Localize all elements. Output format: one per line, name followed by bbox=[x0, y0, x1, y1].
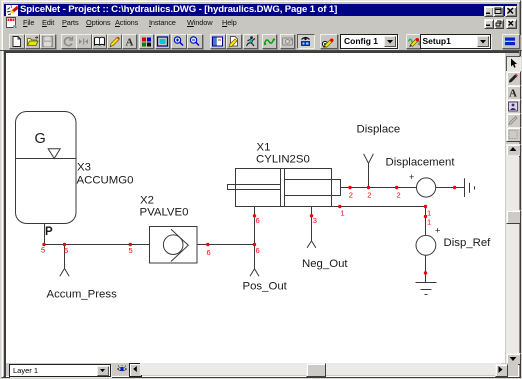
mdi restore bbox=[494, 19, 504, 29]
wire rod to source bbox=[341, 187, 417, 189]
svg-text:+: + bbox=[409, 172, 414, 182]
scroll down bbox=[506, 353, 521, 366]
wire source to ground bbox=[436, 187, 465, 189]
antenna Accum_Press bbox=[60, 245, 69, 277]
pencil yellow bbox=[107, 34, 123, 50]
zoom out bbox=[187, 34, 203, 50]
node dot 6 pin bbox=[253, 214, 256, 217]
valve X2 body bbox=[150, 227, 198, 264]
wire accumulator to valve bbox=[44, 244, 150, 246]
node dot 1 left bbox=[338, 205, 341, 208]
node dot 2 rod bbox=[348, 186, 351, 189]
scroll up bbox=[506, 144, 521, 157]
title bar bbox=[4, 4, 517, 16]
book bbox=[92, 34, 108, 50]
cylinder X1 body bbox=[228, 169, 341, 207]
svg-text:CYLIN2S0: CYLIN2S0 bbox=[256, 154, 310, 166]
setup pens bbox=[406, 34, 423, 50]
svg-text:+: + bbox=[435, 226, 440, 236]
eye icon bbox=[117, 365, 127, 373]
open bbox=[25, 34, 41, 50]
hthumb bbox=[306, 363, 326, 377]
line tool (disabled) bbox=[506, 113, 521, 129]
svg-text:2: 2 bbox=[367, 191, 371, 200]
svg-text:5: 5 bbox=[41, 246, 45, 255]
mdi close bbox=[506, 19, 517, 29]
palette bbox=[139, 34, 155, 50]
svg-text:PVALVE0: PVALVE0 bbox=[140, 207, 189, 219]
zoom in bbox=[171, 34, 187, 50]
svg-text:6: 6 bbox=[256, 246, 260, 255]
wire node1 horizontal bbox=[332, 206, 426, 208]
antenna Neg_Out bbox=[307, 241, 316, 248]
node dot 1 vert bbox=[424, 215, 427, 218]
ground right bbox=[465, 178, 475, 197]
node dot 5 valve bbox=[129, 243, 132, 246]
wire accumulator stub bbox=[44, 224, 46, 245]
svg-text:6: 6 bbox=[256, 216, 260, 225]
ground bottom bbox=[416, 283, 437, 295]
antenna Displace bbox=[364, 154, 374, 188]
maximize bbox=[493, 6, 504, 17]
svg-text:Pos_Out: Pos_Out bbox=[243, 281, 288, 293]
layer combo bbox=[9, 364, 111, 378]
svg-text:5: 5 bbox=[129, 246, 133, 255]
zoom tool (disabled) bbox=[506, 127, 521, 143]
right tool strip bbox=[505, 53, 519, 363]
svg-text:2: 2 bbox=[349, 191, 353, 200]
vthumb bbox=[506, 210, 521, 224]
wire valve to junction bbox=[197, 244, 255, 246]
menu bar bbox=[0, 17, 522, 29]
wire cylinder pin3 bbox=[311, 207, 313, 241]
pencil tool bbox=[506, 71, 521, 87]
A bbox=[122, 34, 138, 50]
node dot 5 stub bbox=[42, 243, 45, 246]
svg-text:P: P bbox=[45, 226, 53, 238]
svg-text:ACCUMG0: ACCUMG0 bbox=[77, 175, 134, 187]
svg-text:Accum_Press: Accum_Press bbox=[47, 289, 118, 301]
svg-text:G: G bbox=[35, 131, 46, 147]
new bbox=[9, 34, 25, 50]
save (disabled) bbox=[40, 34, 56, 50]
svg-text:3: 3 bbox=[313, 216, 317, 225]
svg-text:Displacement: Displacement bbox=[386, 157, 456, 169]
node dot 2 antenna bbox=[367, 186, 370, 189]
node dot 5 antenna bbox=[63, 243, 66, 246]
close bbox=[505, 6, 517, 17]
setup combo bbox=[420, 34, 491, 49]
wire source to ground bottom bbox=[425, 255, 427, 282]
wire cylinder pin6 bbox=[254, 207, 256, 245]
node dot 2 gnd bbox=[453, 186, 456, 189]
toolbar bbox=[0, 31, 522, 51]
svg-text:X2: X2 bbox=[140, 195, 154, 207]
svg-text:X3: X3 bbox=[77, 162, 91, 174]
config pen bbox=[320, 34, 339, 50]
vtrack bbox=[506, 155, 519, 353]
bottom scroll row bbox=[6, 363, 518, 376]
svg-text:Neg_Out: Neg_Out bbox=[302, 258, 348, 270]
node dot 2 mid bbox=[395, 186, 398, 189]
sine probe bbox=[262, 34, 278, 50]
svg-text:6: 6 bbox=[207, 248, 211, 257]
svg-text:1: 1 bbox=[341, 209, 345, 218]
left arrow bbox=[129, 363, 143, 377]
svg-text:2: 2 bbox=[397, 191, 401, 200]
svg-text:Disp_Ref: Disp_Ref bbox=[444, 237, 492, 249]
accumulator X3 body bbox=[16, 112, 77, 224]
mdi minimize bbox=[484, 19, 494, 29]
text tool bbox=[506, 85, 521, 101]
config combo bbox=[340, 34, 398, 49]
meter (disabled) bbox=[280, 34, 296, 50]
svg-text:Displace: Displace bbox=[357, 124, 401, 136]
blue square bbox=[155, 34, 171, 50]
minimize bbox=[484, 6, 495, 17]
svg-text:1: 1 bbox=[427, 218, 431, 227]
htrack bbox=[140, 363, 501, 375]
step (disabled) bbox=[76, 34, 92, 50]
window props bbox=[210, 34, 226, 50]
node dot 3 pin bbox=[310, 214, 313, 217]
node dot 0 gnd bbox=[424, 271, 427, 274]
node dot 6 junction bbox=[253, 243, 256, 246]
node dot 1 corner bbox=[424, 205, 427, 208]
svg-text:X1: X1 bbox=[257, 142, 271, 154]
source V_Disp_Ref bbox=[416, 235, 436, 255]
wire node1 vertical bbox=[425, 207, 427, 236]
right arrow bbox=[495, 364, 508, 377]
doc pencil bbox=[226, 34, 242, 50]
stack icon bbox=[502, 34, 520, 50]
svg-text:5: 5 bbox=[64, 246, 68, 255]
actuate bbox=[243, 34, 259, 50]
image tool bbox=[506, 99, 521, 115]
redo (disabled) bbox=[61, 34, 77, 50]
antenna Pos_Out bbox=[250, 245, 259, 277]
arrow tool (pressed) bbox=[506, 56, 521, 72]
source V_Displacement bbox=[417, 178, 436, 197]
bus pressed bbox=[297, 34, 315, 50]
node dot 6 valve bbox=[206, 243, 209, 246]
svg-text:1: 1 bbox=[427, 209, 431, 218]
